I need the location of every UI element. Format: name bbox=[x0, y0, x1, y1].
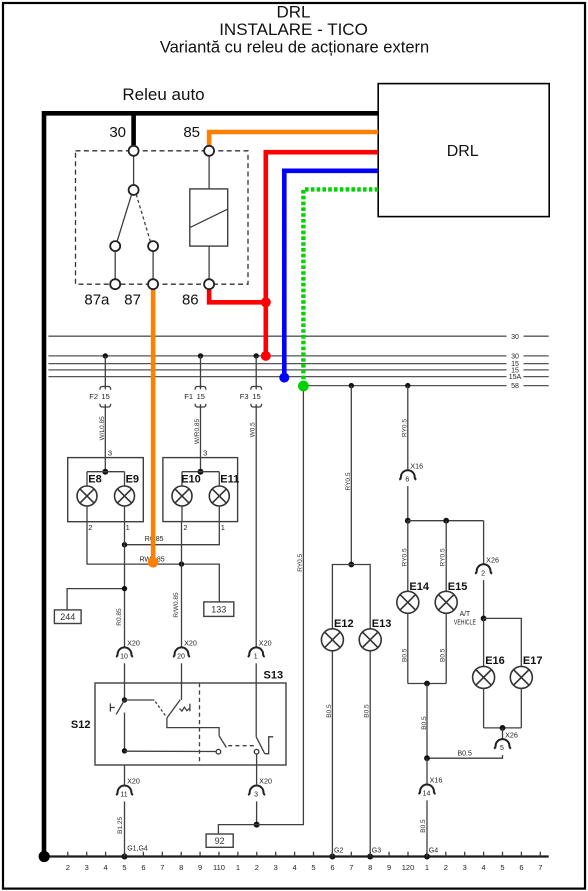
svg-text:G1,G4: G1,G4 bbox=[127, 845, 148, 852]
ground bus tick 2 bbox=[67, 852, 69, 857]
switch S13 input wire bbox=[255, 683, 257, 737]
svg-text:B0.5: B0.5 bbox=[421, 716, 428, 730]
svg-text:Variantă cu releu de acționare: Variantă cu releu de acționare extern bbox=[160, 39, 429, 57]
wire to E16/E17 bbox=[484, 618, 522, 666]
connector terminal 133 bbox=[204, 602, 234, 617]
wire relay pin30 stub (thick black) bbox=[131, 113, 136, 145]
contact circle left bbox=[216, 749, 221, 754]
node S13 output junction bbox=[254, 822, 260, 828]
svg-text:20: 20 bbox=[177, 654, 185, 661]
svg-text:RY0.5: RY0.5 bbox=[440, 548, 447, 566]
lamp E14 bbox=[397, 591, 419, 613]
ground bus tick 3 bbox=[275, 852, 277, 857]
ground bus tick 110 bbox=[218, 852, 220, 857]
headlamp unit box E8/E9 bbox=[68, 458, 144, 522]
node orange junction on R/W0.85 wire bbox=[148, 557, 159, 568]
connector terminal 92 bbox=[206, 834, 233, 847]
wire bottom horizontal in S12 bbox=[125, 750, 216, 752]
node E16/E17 join bbox=[500, 725, 506, 731]
switch S12 second pole wire bbox=[181, 683, 183, 700]
wire red: branch to relay pin 86 bbox=[209, 290, 266, 303]
ground bus tick 8 bbox=[369, 852, 371, 857]
svg-text:3: 3 bbox=[203, 449, 207, 458]
connector X16 pin 6 bbox=[399, 470, 416, 480]
svg-text:X20: X20 bbox=[127, 641, 140, 648]
wire S12 dimmer branch bbox=[125, 699, 155, 701]
svg-text:1: 1 bbox=[126, 523, 130, 532]
svg-text:3: 3 bbox=[274, 863, 278, 872]
svg-text:2: 2 bbox=[88, 523, 92, 532]
node E14/E15 join bbox=[424, 681, 430, 687]
svg-text:R0.85: R0.85 bbox=[116, 608, 123, 626]
svg-text:RY0.5: RY0.5 bbox=[401, 419, 408, 437]
ground bus tick 9 bbox=[388, 852, 390, 857]
svg-text:X26: X26 bbox=[486, 557, 499, 564]
svg-text:4: 4 bbox=[104, 863, 108, 872]
ground bus tick 7 bbox=[539, 852, 541, 857]
node S12 lower junction bbox=[122, 748, 127, 753]
svg-text:58: 58 bbox=[511, 383, 519, 390]
contact circle right bbox=[254, 749, 259, 754]
ground bus tick 1 bbox=[237, 852, 239, 857]
ground bus tick 3 bbox=[464, 852, 466, 857]
svg-text:R/W0.85: R/W0.85 bbox=[173, 592, 180, 618]
svg-text:30: 30 bbox=[109, 124, 126, 141]
wire B1.25 to ground bbox=[124, 801, 126, 856]
svg-text:30: 30 bbox=[511, 334, 519, 341]
svg-text:15A: 15A bbox=[509, 374, 522, 381]
svg-text:A/T: A/T bbox=[460, 611, 471, 618]
svg-text:RY0.5: RY0.5 bbox=[297, 553, 304, 571]
lamp E12 bbox=[321, 629, 343, 651]
svg-text:6: 6 bbox=[405, 476, 409, 483]
svg-text:3: 3 bbox=[254, 792, 258, 799]
svg-text:X20: X20 bbox=[259, 779, 272, 786]
svg-text:10: 10 bbox=[120, 654, 128, 661]
svg-text:3: 3 bbox=[463, 863, 467, 872]
linkage dashed diagonal bbox=[155, 702, 166, 717]
svg-text:E9: E9 bbox=[126, 474, 139, 486]
node pin3 junction E8/E9 bbox=[104, 458, 106, 472]
wire RY0.5 to E14 bbox=[407, 521, 409, 592]
ground bus tick 2 bbox=[445, 852, 447, 857]
svg-text:E15: E15 bbox=[448, 581, 468, 593]
svg-text:X26: X26 bbox=[505, 732, 518, 739]
wire B0.5 return bbox=[427, 755, 503, 758]
node G3 bbox=[367, 854, 373, 860]
wire E10 down bbox=[181, 522, 183, 648]
svg-text:DRL: DRL bbox=[276, 3, 310, 22]
switch S12 second blade bbox=[167, 700, 180, 718]
svg-text:86: 86 bbox=[182, 292, 199, 309]
svg-text:W0.5: W0.5 bbox=[249, 422, 256, 438]
bus line 30 bbox=[48, 335, 506, 337]
svg-text:1: 1 bbox=[236, 863, 240, 872]
svg-text:B0.5: B0.5 bbox=[326, 704, 333, 718]
switch S13 fixed contact hook bbox=[265, 737, 274, 754]
relay pin 30 bbox=[129, 146, 139, 156]
svg-text:X20: X20 bbox=[259, 641, 272, 648]
svg-text:VEHICLE: VEHICLE bbox=[454, 620, 476, 627]
node junction on E10 wire bbox=[179, 561, 184, 566]
ground bus tick 5 bbox=[124, 852, 126, 857]
node ground bus end dot bbox=[39, 851, 50, 862]
node B0.5 join bbox=[424, 755, 430, 761]
connector X16 pin 14 bbox=[426, 758, 428, 784]
wire red: DRL to bus 30 bbox=[266, 152, 378, 356]
svg-text:2: 2 bbox=[183, 523, 187, 532]
svg-text:5: 5 bbox=[311, 863, 315, 872]
svg-text:B0.5: B0.5 bbox=[420, 819, 427, 833]
ground bus tick 120 bbox=[407, 852, 409, 857]
lamp E8 bbox=[86, 472, 88, 487]
linkage dashed to S13 bbox=[228, 745, 254, 747]
bus line 15 bbox=[48, 369, 506, 371]
bus line 30 bbox=[48, 355, 506, 357]
wire green dashed: DRL to bus 58 bbox=[303, 189, 378, 384]
svg-text:2: 2 bbox=[444, 863, 448, 872]
svg-text:G3: G3 bbox=[372, 848, 381, 855]
relay contact node a bbox=[110, 241, 120, 251]
svg-text:S13: S13 bbox=[264, 669, 284, 681]
wire to X26 pin 2 bbox=[483, 521, 485, 565]
svg-text:E13: E13 bbox=[372, 618, 392, 630]
svg-text:6: 6 bbox=[141, 863, 145, 872]
connector X20 pin 1 bbox=[248, 647, 265, 657]
ground bus bbox=[44, 855, 549, 857]
svg-text:B0.5: B0.5 bbox=[401, 648, 408, 662]
svg-text:X16: X16 bbox=[410, 463, 423, 470]
svg-text:1: 1 bbox=[425, 863, 429, 872]
node pin3 junction E10/E11 bbox=[200, 458, 202, 472]
svg-text:F3: F3 bbox=[240, 392, 249, 401]
node junction on E9 wire bbox=[122, 542, 127, 547]
ground bus tick 4 bbox=[105, 852, 107, 857]
wire E16/E17 join bbox=[483, 688, 485, 728]
wire S13 output bbox=[256, 754, 258, 765]
wire S12 pole down bbox=[124, 713, 126, 751]
svg-text:E17: E17 bbox=[523, 655, 543, 667]
node G2 bbox=[329, 854, 335, 860]
wire branch to terminal 244 bbox=[67, 589, 124, 610]
connector X26 pin 2 bbox=[475, 564, 492, 573]
svg-text:1: 1 bbox=[254, 654, 258, 661]
svg-text:244: 244 bbox=[60, 612, 75, 622]
node E12/E13 split bbox=[348, 562, 354, 568]
svg-text:E12: E12 bbox=[334, 618, 354, 630]
svg-text:INSTALARE - TICO: INSTALARE - TICO bbox=[219, 20, 368, 39]
node junction 244 branch bbox=[122, 586, 127, 591]
svg-text:15: 15 bbox=[252, 392, 260, 401]
svg-text:7: 7 bbox=[160, 863, 164, 872]
wire RY0.5 to E15 bbox=[445, 521, 447, 592]
wire blue: DRL to bus 15A bbox=[284, 171, 378, 377]
svg-text:4: 4 bbox=[293, 863, 297, 872]
svg-text:5: 5 bbox=[500, 863, 504, 872]
svg-text:120: 120 bbox=[402, 863, 415, 872]
node blue tap on bus 15A bbox=[279, 373, 289, 383]
svg-text:9: 9 bbox=[387, 863, 391, 872]
svg-text:92: 92 bbox=[215, 836, 225, 846]
node red tap on bus 30 bbox=[261, 351, 271, 361]
relay pin 87a bbox=[110, 279, 120, 289]
ground bus tick 2 bbox=[256, 852, 258, 857]
ground bus tick 1 bbox=[426, 852, 428, 857]
svg-text:8: 8 bbox=[368, 863, 372, 872]
node bus58 tap E12/E13 bbox=[349, 383, 354, 388]
svg-text:3: 3 bbox=[108, 449, 112, 458]
switch unit box S12/S13 bbox=[95, 683, 286, 765]
svg-text:9: 9 bbox=[198, 863, 202, 872]
connector X20 pin 20 bbox=[173, 647, 190, 656]
svg-text:30: 30 bbox=[511, 354, 519, 361]
svg-text:7: 7 bbox=[349, 863, 353, 872]
switch S13 blade bbox=[256, 737, 265, 754]
svg-text:E16: E16 bbox=[485, 655, 505, 667]
svg-text:14: 14 bbox=[423, 791, 431, 798]
svg-text:F2: F2 bbox=[89, 392, 98, 401]
wire RY0.5 to X16 bbox=[407, 386, 409, 471]
svg-text:3: 3 bbox=[85, 863, 89, 872]
switch S12 blade bbox=[116, 700, 124, 714]
wire orange: relay pin 87 down to R/W node bbox=[151, 290, 156, 560]
connector terminal 244 bbox=[54, 610, 81, 624]
relay pin 85 bbox=[204, 146, 214, 156]
node A/T junction bbox=[481, 616, 487, 622]
svg-text:G2: G2 bbox=[334, 848, 343, 855]
wire RY0.5 tail light feed bbox=[257, 386, 304, 825]
svg-text:2: 2 bbox=[66, 863, 70, 872]
relay pin 87 bbox=[148, 279, 158, 289]
svg-text:F1: F1 bbox=[184, 392, 193, 401]
DRL module U1 bbox=[378, 84, 549, 217]
svg-text:B1.25: B1.25 bbox=[117, 817, 124, 834]
relay coil bbox=[190, 189, 228, 246]
lamp E10 bbox=[181, 472, 183, 487]
ground bus tick 7 bbox=[350, 852, 352, 857]
lamp E11 bbox=[218, 472, 220, 487]
connector X26 pin 5 bbox=[502, 728, 504, 739]
node G1,G4 bbox=[122, 854, 128, 860]
svg-text:5: 5 bbox=[122, 863, 126, 872]
svg-text:X16: X16 bbox=[430, 778, 443, 785]
wire B0.5 E14/E15 join bbox=[407, 613, 409, 684]
relay pin 86 bbox=[204, 279, 214, 289]
wire battery feed (thick black) bbox=[44, 113, 378, 856]
svg-text:Releu auto: Releu auto bbox=[122, 85, 204, 104]
ground bus tick 5 bbox=[313, 852, 315, 857]
wire from second pole to contact bbox=[167, 718, 219, 736]
rheostat squiggle bbox=[180, 707, 190, 711]
fuse F3 15 bbox=[254, 353, 259, 358]
svg-text:15: 15 bbox=[197, 392, 205, 401]
bus line 15 bbox=[48, 363, 506, 365]
fuse F1 15 bbox=[198, 353, 203, 358]
relay contact node b bbox=[148, 241, 158, 251]
svg-text:87a: 87a bbox=[84, 292, 110, 309]
node green tap on bus 58 bbox=[298, 381, 309, 392]
connector X20 pin 3 bbox=[248, 786, 265, 795]
svg-text:X20: X20 bbox=[184, 641, 197, 648]
relay switch arm bbox=[133, 156, 135, 185]
ground bus tick 8 bbox=[180, 852, 182, 857]
connector X20 pin 10 bbox=[116, 647, 133, 656]
switch blade to S13 contact bbox=[219, 736, 226, 748]
svg-text:S12: S12 bbox=[71, 719, 91, 731]
lamp E9 bbox=[124, 472, 126, 487]
ground bus tick 3 bbox=[86, 852, 88, 857]
node E15 tap bbox=[443, 518, 449, 524]
lamp E15 bbox=[435, 591, 457, 613]
node G4 bbox=[424, 854, 430, 860]
svg-text:6: 6 bbox=[330, 863, 334, 872]
svg-text:85: 85 bbox=[183, 124, 200, 141]
wire R/W0.85 horizontal (E8/E10/133 node) bbox=[87, 522, 219, 602]
svg-text:E8: E8 bbox=[88, 474, 101, 486]
switch S12 pole node bbox=[124, 683, 126, 700]
wire RY0.5 to E12/E13 bbox=[350, 386, 352, 565]
relay pivot node bbox=[129, 185, 139, 195]
wire E9 low-beam feed down bbox=[124, 522, 126, 648]
ground bus tick 5 bbox=[502, 852, 504, 857]
svg-text:G4: G4 bbox=[429, 848, 438, 855]
svg-text:2: 2 bbox=[255, 863, 259, 872]
headlamp unit box E10/E11 bbox=[163, 458, 238, 522]
wire S13 output to node bbox=[256, 801, 258, 824]
svg-text:8: 8 bbox=[179, 863, 183, 872]
svg-text:1: 1 bbox=[221, 523, 225, 532]
connector X20 pin 11 bbox=[116, 786, 133, 795]
svg-text:B0.5: B0.5 bbox=[364, 704, 371, 718]
relay K1 dashed housing bbox=[76, 151, 249, 284]
svg-text:5: 5 bbox=[500, 745, 504, 752]
node split E14/E15/X26 bbox=[405, 518, 411, 524]
node red junction bbox=[261, 297, 271, 307]
fuse F2 15 bbox=[103, 353, 108, 358]
ground bus tick 4 bbox=[294, 852, 296, 857]
lamp E13 bbox=[359, 629, 381, 651]
svg-text:X20: X20 bbox=[127, 779, 140, 786]
svg-text:W/R0.85: W/R0.85 bbox=[194, 418, 201, 444]
switch S12 fixed contact bbox=[109, 703, 111, 711]
svg-text:E10: E10 bbox=[181, 474, 201, 486]
svg-text:RY0.5: RY0.5 bbox=[401, 548, 408, 566]
svg-text:B0.5: B0.5 bbox=[440, 648, 447, 662]
svg-text:E11: E11 bbox=[220, 474, 239, 486]
ground bus tick 4 bbox=[483, 852, 485, 857]
svg-text:RY0.5: RY0.5 bbox=[345, 472, 352, 490]
svg-text:87: 87 bbox=[124, 292, 141, 309]
wire B0.5 to ground G4 bbox=[426, 800, 428, 856]
svg-text:7: 7 bbox=[538, 863, 542, 872]
ground bus tick 7 bbox=[161, 852, 163, 857]
wire R0.85 horizontal (E9 to E11) bbox=[125, 522, 220, 545]
ground bus tick 6 bbox=[142, 852, 144, 857]
svg-text:6: 6 bbox=[519, 863, 523, 872]
divider dashed bbox=[199, 683, 201, 765]
svg-text:B0.5: B0.5 bbox=[458, 750, 473, 757]
wire to terminal 92 bbox=[218, 825, 256, 834]
svg-text:2: 2 bbox=[481, 570, 485, 577]
svg-text:11: 11 bbox=[120, 792, 127, 799]
svg-text:DRL: DRL bbox=[447, 143, 479, 160]
svg-text:4: 4 bbox=[482, 863, 486, 872]
node bus58 tap E14 group bbox=[405, 383, 410, 388]
wire orange: DRL to relay pin 85 bbox=[209, 132, 378, 145]
svg-text:133: 133 bbox=[211, 604, 226, 614]
svg-text:E14: E14 bbox=[409, 581, 429, 593]
svg-text:15: 15 bbox=[101, 392, 109, 401]
wire B0.5 down bbox=[426, 684, 428, 759]
wire split to lamps bbox=[332, 565, 370, 630]
bus line 15A bbox=[48, 376, 506, 378]
bus line 58 bbox=[306, 385, 507, 387]
ground bus tick 6 bbox=[520, 852, 522, 857]
svg-text:110: 110 bbox=[213, 863, 225, 872]
svg-text:W/L0.85: W/L0.85 bbox=[99, 416, 106, 441]
lamp E17 bbox=[510, 666, 532, 688]
ground bus tick 9 bbox=[199, 852, 201, 857]
lamp E16 bbox=[473, 666, 495, 688]
ground bus tick 6 bbox=[331, 852, 333, 857]
